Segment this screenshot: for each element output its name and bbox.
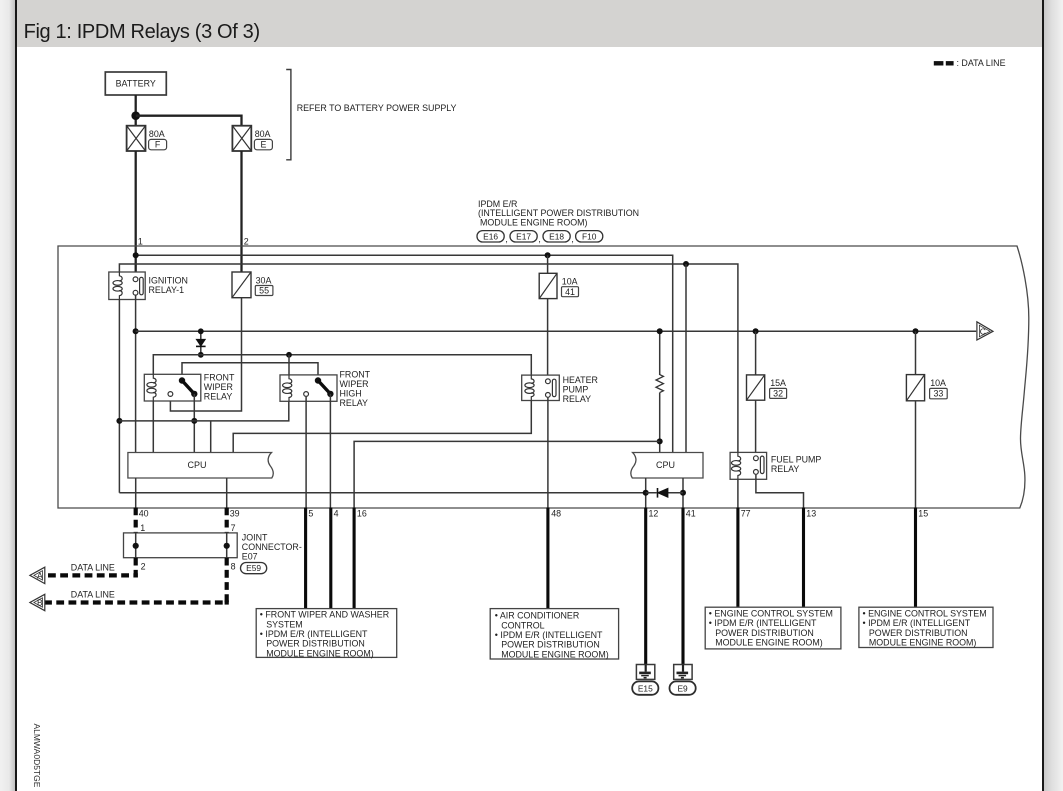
fuse 33 10A: [906, 375, 947, 401]
arrow B: [30, 594, 45, 610]
svg-text:,: ,: [571, 234, 573, 244]
wire 4 thin FWHR arm down: [329, 394, 331, 508]
svg-text:39: 39: [230, 508, 240, 518]
note box engine control 2: [859, 607, 993, 647]
wire fuse32 to fuel contact: [755, 400, 757, 455]
wire line y421: [119, 401, 288, 421]
wire bus to fuse32: [755, 331, 757, 375]
wire 15 fuse33 down: [915, 401, 917, 508]
wire 40 CPU1 bottom: [135, 478, 137, 508]
wire fuse41 to heater contact: [547, 298, 549, 378]
svg-text:40: 40: [139, 508, 149, 518]
IPDM E/R header text: [478, 199, 639, 227]
svg-text:1: 1: [140, 523, 145, 533]
svg-text:POWER DISTRIBUTION: POWER DISTRIBUTION: [501, 640, 600, 650]
svg-text:MODULE ENGINE ROOM): MODULE ENGINE ROOM): [715, 638, 823, 648]
svg-text:CPU: CPU: [187, 460, 206, 470]
node FWHR coil tap: [286, 352, 292, 358]
svg-text:MODULE ENGINE ROOM): MODULE ENGINE ROOM): [266, 648, 374, 658]
svg-text:,: ,: [538, 234, 540, 244]
svg-text:80A: 80A: [255, 129, 271, 139]
svg-text:,: ,: [505, 234, 507, 244]
svg-text:E16: E16: [483, 231, 498, 241]
svg-text:HEATER: HEATER: [563, 375, 598, 385]
svg-text:7: 7: [231, 523, 236, 533]
battery: [105, 72, 166, 95]
svg-text:55: 55: [259, 286, 269, 296]
wire data line B dashed: [45, 558, 227, 603]
wire B1 to CPU: [685, 264, 687, 453]
svg-text:CONTROL: CONTROL: [501, 620, 544, 630]
connector E59: [241, 563, 267, 574]
IPDM E/R box outline: [58, 246, 1029, 508]
svg-text:B: B: [37, 598, 43, 608]
svg-text:F: F: [155, 140, 161, 150]
relay fuel pump relay: [730, 452, 821, 479]
svg-text:WIPER: WIPER: [204, 382, 233, 392]
svg-text:RELAY-1: RELAY-1: [149, 285, 185, 295]
wire 77 bold: [736, 508, 739, 608]
svg-text:41: 41: [565, 287, 575, 297]
note box front wiper system: [256, 609, 397, 659]
svg-text:DATA LINE: DATA LINE: [71, 562, 115, 572]
svg-text:RELAY: RELAY: [771, 464, 800, 474]
svg-text:• IPDM E/R (INTELLIGENT: • IPDM E/R (INTELLIGENT: [495, 630, 603, 640]
wire 5 bold: [304, 508, 307, 609]
svg-text:WIPER: WIPER: [340, 379, 369, 389]
wire heater coil bottom to CPU: [233, 401, 531, 453]
svg-text:E15: E15: [638, 683, 653, 693]
node ignition coil / line y421: [116, 418, 122, 424]
node bus start: [133, 328, 139, 334]
wire fuse55 to wiper contact: [170, 298, 241, 411]
svg-text:F10: F10: [582, 231, 597, 241]
node fuse32 bus: [753, 328, 759, 334]
fuse 32 15A: [747, 375, 787, 400]
svg-text:IGNITION: IGNITION: [149, 275, 188, 285]
wire line A battery feed y255: [136, 255, 673, 452]
svg-text:30A: 30A: [256, 275, 272, 285]
connector E9: [670, 681, 696, 694]
svg-text:REFER TO BATTERY POWER SUPPLY: REFER TO BATTERY POWER SUPPLY: [297, 103, 457, 113]
svg-text:MODULE ENGINE ROOM): MODULE ENGINE ROOM): [869, 638, 977, 648]
svg-text:JOINT: JOINT: [242, 533, 268, 543]
svg-text:4: 4: [334, 508, 339, 518]
svg-text:E18: E18: [549, 231, 564, 241]
svg-text:FRONT: FRONT: [204, 372, 235, 382]
wire 1 fuse F to ignition relay: [135, 151, 137, 277]
connector E15: [632, 681, 658, 694]
svg-text:E17: E17: [516, 231, 531, 241]
connector E18: [543, 231, 574, 244]
relay front wiper relay: [144, 372, 235, 401]
connector E16: [477, 231, 508, 244]
wire battery branch to fuse E: [136, 116, 242, 126]
wire pivot line y363: [182, 363, 318, 381]
svg-text:• IPDM E/R (INTELLIGENT: • IPDM E/R (INTELLIGENT: [863, 618, 971, 628]
wire 16 bold: [353, 508, 356, 609]
svg-text:13: 13: [806, 508, 816, 518]
svg-text:• IPDM E/R (INTELLIGENT: • IPDM E/R (INTELLIGENT: [709, 618, 817, 628]
svg-text:ALMWA0D5TGE: ALMWA0D5TGE: [32, 724, 42, 788]
wire 40 dashed: [134, 508, 138, 534]
svg-text:15: 15: [918, 508, 928, 518]
connector E17: [510, 231, 541, 244]
node battery junction: [131, 111, 140, 120]
wire 41 bold to ground: [681, 508, 684, 665]
svg-text:10A: 10A: [930, 378, 946, 388]
svg-text:MODULE ENGINE ROOM): MODULE ENGINE ROOM): [501, 649, 609, 659]
node joint 1: [133, 543, 139, 549]
svg-text:2: 2: [244, 237, 249, 247]
wire 12 CPU2 bottom: [645, 478, 647, 508]
svg-text:• IPDM E/R (INTELLIGENT: • IPDM E/R (INTELLIGENT: [260, 629, 368, 639]
pin labels bottom edge: [139, 508, 929, 518]
svg-text:POWER DISTRIBUTION: POWER DISTRIBUTION: [715, 628, 814, 638]
svg-text:CONNECTOR-: CONNECTOR-: [242, 542, 302, 552]
node diode2 left: [643, 490, 649, 496]
svg-text:BATTERY: BATTERY: [116, 79, 156, 89]
ground E9: [674, 665, 692, 680]
svg-text:HIGH: HIGH: [340, 388, 362, 398]
svg-text:A: A: [37, 571, 43, 581]
svg-text:: DATA LINE: : DATA LINE: [957, 58, 1006, 68]
op-amp CPU left: [128, 453, 273, 479]
svg-text:• ENGINE CONTROL SYSTEM: • ENGINE CONTROL SYSTEM: [863, 608, 987, 618]
note box air conditioner: [490, 609, 618, 660]
wire 41i CPU2 bottom: [682, 478, 684, 508]
wire 39 dashed: [225, 508, 229, 534]
wire 16 horizontal: [354, 441, 660, 507]
joint connector E07 box: [124, 533, 302, 562]
svg-text:32: 32: [773, 389, 783, 399]
wire bus y331: [136, 330, 977, 332]
svg-text:77: 77: [741, 508, 751, 518]
resistor: [656, 331, 663, 452]
wire y421 tap to CPU: [210, 421, 212, 453]
svg-text:• ENGINE CONTROL SYSTEM: • ENGINE CONTROL SYSTEM: [709, 608, 833, 618]
connector F10: [576, 231, 603, 242]
node D1 top: [198, 328, 204, 334]
wire 13 fuel contact down: [756, 475, 804, 508]
svg-text:PUMP: PUMP: [563, 385, 589, 395]
wire ignition coil bottom: [118, 300, 120, 493]
diode D1: [196, 331, 206, 355]
wire 12 bold to ground: [644, 508, 647, 665]
wire fuse41 top: [547, 255, 549, 273]
svg-text:48: 48: [551, 508, 561, 518]
node FWR arm / y421: [191, 418, 197, 424]
diode D2: [646, 488, 683, 498]
node D1 bottom: [198, 352, 204, 358]
svg-text:8: 8: [231, 561, 236, 571]
svg-text:15A: 15A: [770, 378, 786, 388]
wire line B coil feed y264: [119, 264, 738, 452]
svg-text:41: 41: [686, 508, 696, 518]
wire bus to fuse33: [915, 331, 917, 374]
wire 39 CPU1 bottom: [226, 478, 228, 508]
svg-text:MODULE ENGINE ROOM): MODULE ENGINE ROOM): [480, 217, 588, 227]
fuse 55 30A: [232, 272, 273, 298]
node A2 fuse41 tap: [545, 252, 551, 258]
svg-text:12: 12: [649, 508, 659, 518]
svg-text:80A: 80A: [149, 129, 165, 139]
wire y493 long: [119, 492, 645, 494]
svg-text:C: C: [980, 326, 986, 336]
wire 4 bold: [329, 508, 332, 609]
node resistor wire16: [657, 438, 663, 444]
svg-text:RELAY: RELAY: [563, 394, 592, 404]
wire 48 bold: [546, 508, 549, 609]
svg-text:2: 2: [141, 561, 146, 571]
svg-text:SYSTEM: SYSTEM: [266, 619, 303, 629]
relay front wiper high relay: [280, 369, 371, 408]
svg-text:FRONT: FRONT: [340, 369, 371, 379]
fuse 41 10A: [539, 273, 578, 298]
wire ignition contact bottom to CPU: [135, 295, 137, 453]
svg-text:POWER DISTRIBUTION: POWER DISTRIBUTION: [869, 628, 968, 638]
relay ignition relay-1: [109, 272, 188, 300]
svg-text:POWER DISTRIBUTION: POWER DISTRIBUTION: [266, 639, 365, 649]
op-amp CPU right: [631, 453, 703, 479]
svg-text:1: 1: [138, 237, 143, 247]
svg-text:DATA LINE: DATA LINE: [71, 589, 115, 599]
wire FWR arm to CPU: [193, 394, 195, 453]
svg-text:RELAY: RELAY: [204, 391, 233, 401]
wire data line A dashed: [45, 558, 136, 576]
wire 5 thin FWHR contact down: [305, 397, 307, 508]
node joint 7: [224, 543, 230, 549]
relay heater pump relay: [522, 375, 598, 404]
node B1 cpu branch: [683, 261, 689, 267]
note box engine control 1: [705, 607, 841, 649]
svg-text:5: 5: [308, 508, 313, 518]
node resistor bus: [657, 328, 663, 334]
svg-text:10A: 10A: [562, 277, 578, 287]
bracket refer to battery power supply: [286, 70, 456, 160]
wire coil feed y355: [153, 355, 531, 375]
node fuse33 bus: [913, 328, 919, 334]
wire battery stem: [135, 95, 137, 126]
fusible link E 80A: [232, 126, 272, 151]
svg-text:16: 16: [357, 508, 367, 518]
svg-text:E9: E9: [677, 683, 688, 693]
svg-text:E: E: [260, 140, 266, 150]
wire 77 fuel coil down: [737, 479, 739, 507]
svg-text:FUEL PUMP: FUEL PUMP: [771, 454, 822, 464]
svg-text:E59: E59: [246, 563, 261, 573]
wire FWHR coil top: [288, 355, 290, 375]
svg-text:• FRONT WIPER AND WASHER: • FRONT WIPER AND WASHER: [260, 610, 389, 620]
arrow A: [30, 567, 45, 583]
node diode2 right: [680, 490, 686, 496]
svg-text:RELAY: RELAY: [340, 398, 369, 408]
node A1: [133, 252, 139, 258]
arrow C: [977, 322, 993, 340]
wire 13 bold: [802, 508, 805, 608]
wire FWR coil bottom to CPU: [152, 401, 154, 453]
data line legend: [934, 58, 1006, 68]
wire 15 bold: [914, 508, 917, 608]
ground E15: [636, 665, 654, 680]
fusible link F 80A: [127, 126, 167, 151]
svg-text:33: 33: [933, 389, 943, 399]
svg-text:E07: E07: [242, 552, 258, 562]
wire 2 fuse E to fuse 55: [240, 151, 242, 272]
wire 48 thin heater contact down: [547, 398, 549, 508]
svg-text:• AIR CONDITIONER: • AIR CONDITIONER: [495, 611, 579, 621]
svg-text:CPU: CPU: [656, 460, 675, 470]
